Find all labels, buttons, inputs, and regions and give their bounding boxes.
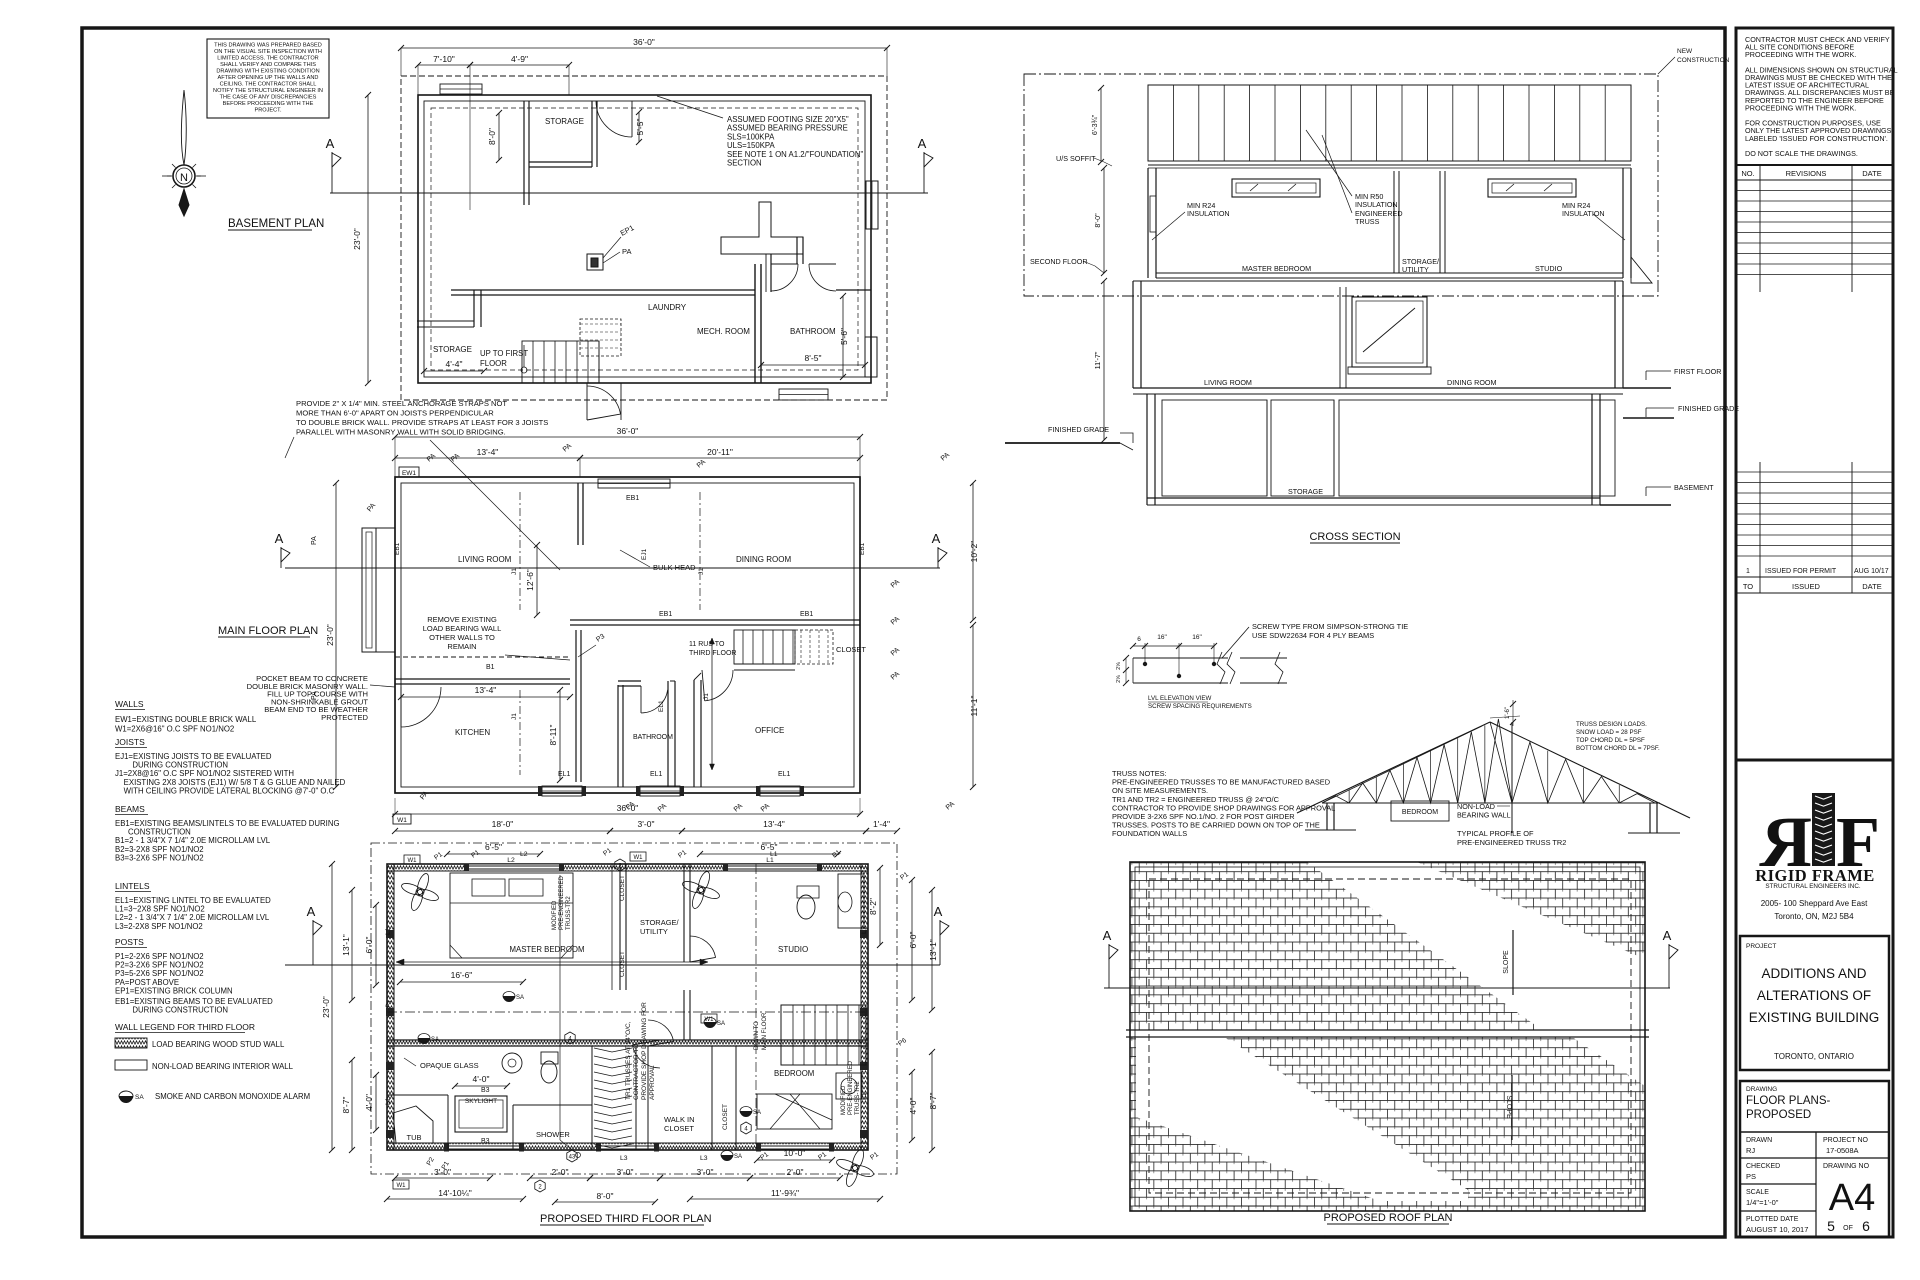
svg-text:2⅝: 2⅝ [1116,662,1122,670]
svg-text:TRUSS: TRUSS [1355,217,1380,226]
svg-text:TOP CHORD DL = 5PSF: TOP CHORD DL = 5PSF [1576,737,1645,744]
svg-text:TORONTO, ONTARIO: TORONTO, ONTARIO [1774,1052,1854,1061]
svg-text:SCREW SPACING REQUIREMENTS: SCREW SPACING REQUIREMENTS [1148,703,1252,710]
svg-text:MAIN FLOOR PLAN: MAIN FLOOR PLAN [218,625,318,637]
svg-text:8'-0": 8'-0" [1093,213,1102,228]
svg-text:FINISHED GRADE: FINISHED GRADE [1678,404,1739,413]
svg-text:5'-6": 5'-6" [839,328,849,345]
svg-text:L3: L3 [620,1155,628,1162]
svg-text:DINING ROOM: DINING ROOM [736,555,791,564]
svg-text:PROCEEDING WITH THE WORK.: PROCEEDING WITH THE WORK. [1745,103,1856,112]
svg-text:SHOWER: SHOWER [536,1130,570,1139]
svg-text:13'-4": 13'-4" [475,685,497,695]
svg-text:EJ1: EJ1 [641,548,648,560]
svg-text:L1: L1 [861,926,868,934]
svg-text:AUG 10/17: AUG 10/17 [1854,568,1889,575]
svg-text:FIRST FLOOR: FIRST FLOOR [1674,367,1721,376]
svg-text:AUGUST 10, 2017: AUGUST 10, 2017 [1746,1225,1808,1234]
svg-text:TR1 TRUSSES AT 24"O/C,: TR1 TRUSSES AT 24"O/C, [625,1021,632,1100]
svg-text:BATHROOM: BATHROOM [790,327,836,336]
svg-text:NO.: NO. [1741,169,1754,178]
svg-text:SCALE: SCALE [1746,1189,1769,1196]
svg-text:PROVIDE SHOP DRAWING FOR: PROVIDE SHOP DRAWING FOR [641,1002,648,1100]
svg-text:STUDIO: STUDIO [1535,264,1563,273]
svg-text:PROVIDE 2" X 1/4" MIN. STEEL A: PROVIDE 2" X 1/4" MIN. STEEL ANCHORAGE S… [296,399,507,408]
svg-text:1/4"=1'-0": 1/4"=1'-0" [1746,1198,1779,1207]
svg-text:W1: W1 [408,858,418,864]
svg-text:13'-1": 13'-1" [928,939,938,961]
svg-text:16": 16" [1192,634,1202,641]
svg-text:MECH. ROOM: MECH. ROOM [697,327,750,336]
svg-text:L2: L2 [520,851,528,858]
svg-text:STORAGE/: STORAGE/ [640,918,680,927]
svg-text:36'-0": 36'-0" [617,426,639,436]
svg-text:6: 6 [1137,636,1141,643]
svg-text:ADDITIONS AND: ADDITIONS AND [1761,966,1866,981]
svg-text:LIMITED ACCESS. THE CONTRACTOR: LIMITED ACCESS. THE CONTRACTOR [217,56,318,62]
svg-text:4'-9": 4'-9" [511,54,528,64]
svg-text:FOUNDATION WALLS: FOUNDATION WALLS [1112,829,1187,838]
svg-text:KITCHEN: KITCHEN [455,728,490,737]
svg-text:10'-0": 10'-0" [784,1148,806,1158]
svg-text:4'-0": 4'-0" [908,1098,918,1115]
svg-text:L1: L1 [766,857,774,864]
svg-text:LOAD BEARING WALL: LOAD BEARING WALL [423,624,502,633]
svg-text:Toronto, ON, M2J 5B4: Toronto, ON, M2J 5B4 [1774,912,1854,921]
svg-text:TO: TO [1743,582,1753,591]
svg-text:PROJECT: PROJECT [1746,943,1776,950]
svg-text:PROPOSED ROOF PLAN: PROPOSED ROOF PLAN [1324,1212,1453,1224]
svg-text:INSULATION: INSULATION [1187,209,1230,218]
svg-text:L3: L3 [700,1155,708,1162]
svg-text:DRAWN: DRAWN [1746,1137,1772,1144]
svg-text:SA: SA [516,995,524,1001]
svg-text:MODIFIED: MODIFIED [552,900,558,930]
svg-text:CLOSET: CLOSET [722,1104,729,1130]
svg-text:8'-2": 8'-2" [868,898,878,915]
svg-text:LOAD BEARING WOOD STUD WALL: LOAD BEARING WOOD STUD WALL [152,1040,285,1049]
svg-text:8'-7": 8'-7" [341,1097,351,1114]
svg-text:DRAWING NO: DRAWING NO [1823,1163,1870,1170]
svg-text:EB1: EB1 [859,542,866,555]
svg-text:REVISIONS: REVISIONS [1786,169,1827,178]
svg-text:TO DOUBLE BRICK WALL. PROVIDE: TO DOUBLE BRICK WALL. PROVIDE STRAPS AT … [296,418,548,427]
svg-text:18'-0": 18'-0" [492,819,514,829]
svg-text:STRUCTURAL ENGINEERS INC.: STRUCTURAL ENGINEERS INC. [1765,883,1861,890]
svg-text:MASTER BEDROOM: MASTER BEDROOM [510,945,585,954]
svg-text:LIVING ROOM: LIVING ROOM [1204,378,1252,387]
svg-text:BEFORE PROCEEDING WITH THE: BEFORE PROCEEDING WITH THE [223,101,314,107]
svg-text:12'-6": 12'-6" [525,569,535,591]
svg-text:CEILING. THE CONTRACTOR SHALL: CEILING. THE CONTRACTOR SHALL [220,82,317,88]
svg-text:INSULATION: INSULATION [1562,209,1605,218]
svg-text:14'-10¼": 14'-10¼" [438,1188,471,1198]
svg-text:SKYLIGHT: SKYLIGHT [465,1098,497,1105]
svg-text:EW1: EW1 [402,470,416,477]
svg-text:L1: L1 [385,1097,392,1105]
svg-text:4'-0": 4'-0" [364,1094,374,1111]
svg-text:3'-0": 3'-0" [617,1167,634,1177]
svg-text:16'-6": 16'-6" [451,970,473,980]
svg-text:A: A [326,136,335,151]
svg-text:REMAIN: REMAIN [447,642,476,651]
svg-text:FINISHED GRADE: FINISHED GRADE [1048,425,1109,434]
svg-text:JOISTS: JOISTS [115,737,145,747]
svg-text:3'-0": 3'-0" [638,819,655,829]
svg-text:OF: OF [1843,1225,1853,1232]
svg-text:FLOOR PLANS-: FLOOR PLANS- [1746,1095,1831,1107]
svg-text:BATHROOM: BATHROOM [633,734,673,741]
svg-text:ISSUED: ISSUED [1792,582,1821,591]
svg-text:CLOSET: CLOSET [836,645,866,654]
svg-text:4'-0": 4'-0" [473,1074,490,1084]
svg-text:W1: W1 [705,1017,715,1023]
svg-text:8'-0": 8'-0" [597,1191,614,1201]
svg-text:DURING CONSTRUCTION: DURING CONSTRUCTION [115,1006,228,1015]
svg-text:PS: PS [1746,1172,1756,1181]
svg-text:8'-0": 8'-0" [487,128,497,145]
svg-text:EP1=EXISTING BRICK COLUMN: EP1=EXISTING BRICK COLUMN [115,986,233,995]
svg-text:B1: B1 [486,664,495,671]
svg-text:SLOPE: SLOPE [1503,950,1510,974]
svg-text:6'-5": 6'-5" [485,842,502,852]
svg-text:EB1: EB1 [394,542,401,555]
svg-text:DINING ROOM: DINING ROOM [1447,378,1497,387]
svg-text:7'-10": 7'-10" [433,54,455,64]
svg-text:PRE-ENGINEERED TRUSS TR2: PRE-ENGINEERED TRUSS TR2 [1457,838,1566,847]
svg-text:STORAGE: STORAGE [545,117,584,126]
svg-text:5'-5": 5'-5" [635,119,645,136]
svg-text:A: A [275,531,284,546]
svg-text:16": 16" [1157,634,1167,641]
svg-text:THE CASE OF ANY DISCREPANCIES: THE CASE OF ANY DISCREPANCIES [220,95,317,101]
svg-text:8'-5": 8'-5" [805,353,822,363]
svg-text:WITH CEILING PROVIDE LATERAL B: WITH CEILING PROVIDE LATERAL BLOCKING @7… [115,786,335,795]
svg-text:REMOVE EXISTING: REMOVE EXISTING [427,615,497,624]
svg-text:A4: A4 [1829,1177,1875,1219]
svg-text:W1: W1 [634,855,644,861]
svg-text:DO NOT SCALE THE DRAWINGS.: DO NOT SCALE THE DRAWINGS. [1745,149,1858,158]
svg-text:NEW: NEW [1677,48,1693,55]
svg-text:4'-4": 4'-4" [446,359,463,369]
svg-text:LIVING ROOM: LIVING ROOM [458,555,512,564]
svg-text:PROJECT.: PROJECT. [254,108,281,114]
svg-text:BOTTOM CHORD DL = 7PSF.: BOTTOM CHORD DL = 7PSF. [1576,745,1660,752]
svg-text:MASTER BEDROOM: MASTER BEDROOM [1242,264,1311,273]
svg-text:APPROVAL: APPROVAL [649,1065,656,1100]
svg-text:USE SDW22634 FOR 4 PLY BEAMS: USE SDW22634 FOR 4 PLY BEAMS [1252,631,1374,640]
svg-text:LINTELS: LINTELS [115,881,150,891]
svg-text:MAIN FLOOR: MAIN FLOOR [762,1012,768,1050]
svg-text:SECOND FLOOR: SECOND FLOOR [1030,257,1088,266]
svg-text:WALLS: WALLS [115,699,144,709]
svg-text:ULS=150KPA: ULS=150KPA [727,141,776,150]
svg-text:2005- 100 Sheppard Ave East: 2005- 100 Sheppard Ave East [1761,899,1868,908]
svg-text:PA: PA [622,247,631,256]
svg-text:J1: J1 [511,568,518,575]
svg-text:PRE-ENGINEERED: PRE-ENGINEERED [559,875,565,930]
svg-text:BEDROOM: BEDROOM [774,1069,814,1078]
svg-text:FLOOR: FLOOR [480,359,507,368]
svg-text:L1: L1 [385,927,392,935]
svg-text:SECTION: SECTION [727,159,762,168]
svg-text:OPAQUE GLASS: OPAQUE GLASS [420,1061,479,1070]
svg-text:DATE: DATE [1862,169,1881,178]
svg-text:ON THE VISUAL SITE INSPECTION: ON THE VISUAL SITE INSPECTION WITH [214,49,322,55]
svg-text:THIRD FLOOR: THIRD FLOOR [689,650,736,657]
svg-text:LABELED 'ISSUED FOR CONSTRUCTI: LABELED 'ISSUED FOR CONSTRUCTION'. [1745,134,1888,143]
svg-text:W1: W1 [397,1183,407,1189]
svg-text:SEE NOTE 1 ON A1.2/"FOUNDATION: SEE NOTE 1 ON A1.2/"FOUNDATION" [727,150,863,159]
svg-text:SA: SA [717,1021,725,1027]
svg-text:W1: W1 [397,817,407,824]
svg-text:EB1: EB1 [626,495,639,502]
svg-text:6: 6 [1862,1218,1870,1234]
svg-text:P1: P1 [385,999,393,1009]
svg-text:EB1: EB1 [659,611,672,618]
svg-text:6'-0": 6'-0" [364,937,374,954]
svg-text:UTILITY: UTILITY [640,927,668,936]
svg-text:23'-0": 23'-0" [352,228,362,250]
svg-text:2'-0": 2'-0" [787,1167,804,1177]
svg-text:STORAGE: STORAGE [1288,487,1323,496]
svg-text:OFFICE: OFFICE [755,726,784,735]
svg-text:36'-0": 36'-0" [633,37,655,47]
svg-text:PRE-ENGINEERED: PRE-ENGINEERED [848,1060,854,1115]
svg-text:ALTERATIONS OF: ALTERATIONS OF [1757,988,1871,1003]
svg-text:B3: B3 [481,1087,490,1094]
svg-text:EXISTING BUILDING: EXISTING BUILDING [1749,1010,1880,1025]
svg-text:A: A [1663,928,1672,943]
svg-text:13'-4": 13'-4" [763,819,785,829]
svg-text:SCREW TYPE FROM SIMPSON-STRONG: SCREW TYPE FROM SIMPSON-STRONG TIE [1252,622,1408,631]
svg-text:CONTRACTOR TO: CONTRACTOR TO [633,1044,640,1100]
svg-text:BEARING WALL: BEARING WALL [1457,811,1511,820]
svg-text:BASEMENT PLAN: BASEMENT PLAN [228,218,324,230]
svg-text:DRAWING: DRAWING [1746,1086,1777,1093]
svg-text:A: A [307,904,316,919]
svg-text:WALL LEGEND FOR THIRD FLOOR: WALL LEGEND FOR THIRD FLOOR [115,1022,255,1032]
svg-text:ASSUMED BEARING PRESSURE: ASSUMED BEARING PRESSURE [727,124,848,133]
svg-text:PA: PA [311,536,318,545]
svg-text:N: N [180,172,188,184]
svg-text:PROJECT NO: PROJECT NO [1823,1137,1869,1144]
svg-text:36'-0": 36'-0" [617,803,639,813]
svg-text:PROCEEDING WITH THE WORK.: PROCEEDING WITH THE WORK. [1745,50,1856,59]
svg-text:CLOSET: CLOSET [619,875,626,901]
svg-text:1'-4": 1'-4" [873,819,890,829]
svg-text:11'-1": 11'-1" [969,695,979,716]
svg-text:2⅝: 2⅝ [1116,675,1122,683]
svg-text:AFTER OPENING UP THE WALLS AND: AFTER OPENING UP THE WALLS AND [218,75,319,81]
svg-text:TYPICAL PROFILE OF: TYPICAL PROFILE OF [1457,829,1534,838]
svg-text:TRUSS-TR2: TRUSS-TR2 [566,896,572,930]
svg-text:EL1: EL1 [778,771,791,778]
svg-text:BASEMENT: BASEMENT [1674,483,1714,492]
svg-text:BEDROOM: BEDROOM [1402,809,1438,816]
svg-text:PARALLEL WITH MASONRY WALL WIT: PARALLEL WITH MASONRY WALL WITH SOLID BR… [296,428,506,437]
svg-text:CLOSET: CLOSET [664,1124,694,1133]
svg-text:NOTIFY THE STRUCTURAL ENGINEER: NOTIFY THE STRUCTURAL ENGINEER IN [213,88,323,94]
svg-text:DRAWING WITH EXISTING CONDITIO: DRAWING WITH EXISTING CONDITION [216,69,319,75]
svg-text:CROSS SECTION: CROSS SECTION [1309,531,1400,543]
svg-text:A: A [934,904,943,919]
svg-text:RJ: RJ [1746,1146,1755,1155]
svg-text:A: A [1103,928,1112,943]
svg-text:PLOTTED DATE: PLOTTED DATE [1746,1216,1799,1223]
svg-text:MODIFIED: MODIFIED [841,1085,847,1115]
svg-text:B3=3-2X6 SPF NO1/NO2: B3=3-2X6 SPF NO1/NO2 [115,853,204,862]
svg-text:23'-0": 23'-0" [321,996,331,1018]
svg-text:SA: SA [135,1094,144,1101]
svg-text:U/S SOFFIT: U/S SOFFIT [1056,154,1096,163]
svg-text:L1: L1 [770,851,778,858]
svg-text:23'-0": 23'-0" [325,624,335,646]
svg-text:ISSUED FOR PERMIT: ISSUED FOR PERMIT [1765,568,1837,575]
svg-text:OTHER WALLS TO: OTHER WALLS TO [429,633,495,642]
svg-text:NON-LOAD BEARING INTERIOR WALL: NON-LOAD BEARING INTERIOR WALL [152,1062,294,1071]
svg-text:6'-3¾": 6'-3¾" [1090,114,1099,135]
svg-text:EL1: EL1 [650,771,663,778]
svg-text:UTILITY: UTILITY [1402,265,1429,274]
svg-text:DATE: DATE [1862,582,1881,591]
svg-text:CONSTRUCTION: CONSTRUCTION [1677,57,1730,64]
svg-text:TRUSS-TR2: TRUSS-TR2 [855,1081,861,1115]
svg-text:SHALL VERIFY AND COMPARE TH: SHALL VERIFY AND COMPARE THIS [220,62,316,68]
svg-text:SLS=100KPA: SLS=100KPA [727,132,775,141]
svg-text:PROPOSED: PROPOSED [1746,1109,1811,1121]
svg-text:BEAMS: BEAMS [115,804,145,814]
svg-text:MORE THAN 6'-0" APART ON JOIST: MORE THAN 6'-0" APART ON JOISTS PERPENDI… [296,409,494,418]
svg-text:EB1: EB1 [800,611,813,618]
svg-text:L3=2-2X8 SPF NO1/NO2: L3=2-2X8 SPF NO1/NO2 [115,922,203,931]
svg-text:BULK HEAD: BULK HEAD [653,563,696,572]
svg-text:11 RUS TO: 11 RUS TO [689,641,725,648]
svg-text:B3: B3 [481,1138,490,1145]
svg-text:5: 5 [1827,1218,1835,1234]
svg-text:LVL ELEVATION VIEW: LVL ELEVATION VIEW [1148,695,1212,702]
svg-text:43: 43 [569,1155,576,1161]
svg-text:INSULATION: INSULATION [1355,200,1398,209]
svg-text:L1: L1 [861,1092,868,1100]
svg-text:J1: J1 [698,568,705,575]
svg-text:J1: J1 [511,713,518,720]
svg-text:A: A [918,136,927,151]
svg-text:DOWN TO: DOWN TO [754,1021,760,1050]
svg-text:17-0508A: 17-0508A [1826,1146,1859,1155]
svg-text:SA: SA [431,1037,439,1043]
svg-text:POSTS: POSTS [115,937,144,947]
svg-text:TUB: TUB [407,1133,422,1142]
svg-text:SNOW LOAD = 28 PSF: SNOW LOAD = 28 PSF [1576,729,1642,736]
svg-text:SA: SA [734,1154,742,1160]
svg-text:STUDIO: STUDIO [778,945,808,954]
svg-text:10'-2": 10'-2" [969,541,979,563]
svg-text:11'-9¾": 11'-9¾" [771,1188,799,1198]
svg-text:SLOPE: SLOPE [1505,1095,1512,1119]
svg-text:8'-7": 8'-7" [928,1093,938,1110]
svg-text:ASSUMED FOOTING SIZE 20"X5": ASSUMED FOOTING SIZE 20"X5" [727,115,849,124]
svg-text:1: 1 [1746,568,1750,575]
svg-text:2'-0": 2'-0" [552,1167,569,1177]
svg-text:11'-7": 11'-7" [1093,351,1102,369]
svg-text:L2: L2 [507,857,515,864]
svg-text:6'-0": 6'-0" [908,932,918,949]
svg-text:3'-0": 3'-0" [697,1167,714,1177]
svg-text:A: A [932,531,941,546]
svg-text:CLOSET: CLOSET [619,951,626,977]
svg-text:WALK IN: WALK IN [664,1115,695,1124]
svg-text:CHECKED: CHECKED [1746,1163,1780,1170]
svg-text:UP TO FIRST: UP TO FIRST [480,349,528,358]
svg-text:SMOKE AND CARBON MONOXIDE ALAR: SMOKE AND CARBON MONOXIDE ALARM [155,1092,310,1101]
svg-text:W1=2X6@16" O.C SPF NO1/NO2: W1=2X6@16" O.C SPF NO1/NO2 [115,725,234,734]
svg-text:20'-11": 20'-11" [707,447,733,457]
svg-text:LAUNDRY: LAUNDRY [648,303,687,312]
svg-text:PROPOSED THIRD FLOOR PLAN: PROPOSED THIRD FLOOR PLAN [540,1213,712,1225]
svg-text:PROTECTED: PROTECTED [321,713,368,722]
svg-text:TRUSS DESIGN LOADS.: TRUSS DESIGN LOADS. [1576,721,1647,728]
svg-text:8'-11": 8'-11" [548,724,558,745]
svg-text:THIS DRAWING WAS PREPARED BASE: THIS DRAWING WAS PREPARED BASED [214,43,322,49]
svg-text:STORAGE: STORAGE [433,345,472,354]
svg-text:13'-1": 13'-1" [341,934,351,956]
svg-text:13'-4": 13'-4" [477,447,499,457]
svg-text:EW1=EXISTING DOUBLE BRICK WALL: EW1=EXISTING DOUBLE BRICK WALL [115,715,257,724]
